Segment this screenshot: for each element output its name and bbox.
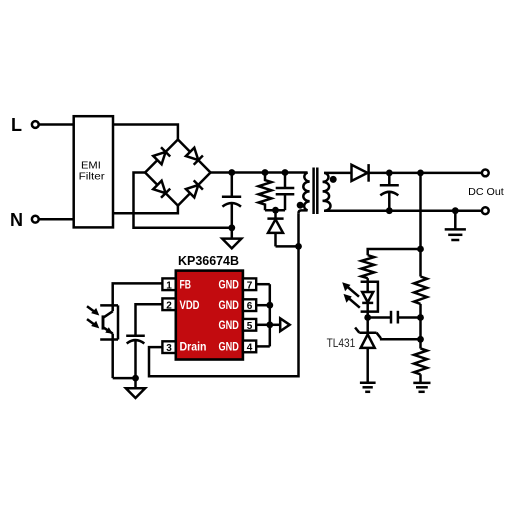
node gnd bus pin5: [266, 321, 273, 328]
resistor R4 LED series: [361, 255, 374, 278]
node feedback tap: [417, 170, 424, 177]
ground divider (IEC): [413, 383, 430, 392]
wire snubber bottom: [265, 209, 285, 212]
bridge diode D3 bottom-left: [153, 181, 170, 198]
node gnd bus pin6: [266, 302, 273, 309]
wire L to EMI filter: [39, 123, 74, 126]
wire R3 to ground: [419, 374, 422, 383]
node divider mid cap: [417, 314, 424, 321]
node snubber cap top: [282, 169, 289, 176]
wire pin 4 to gnd bus: [256, 345, 270, 348]
svg-text:3: 3: [166, 343, 172, 354]
terminal DC Out -: [482, 207, 489, 214]
node primary polarity dot: [297, 202, 304, 209]
node secondary ground junction: [452, 207, 459, 214]
svg-text:DC Out: DC Out: [468, 186, 504, 198]
capacitor C2 snubber: [276, 173, 295, 211]
node secondary polarity dot: [330, 176, 337, 183]
svg-text:L: L: [11, 115, 22, 135]
pin 4 box: [243, 341, 256, 354]
svg-text:1: 1: [166, 280, 172, 291]
wire pin 1 to optocoupler: [113, 283, 163, 311]
svg-text:N: N: [10, 210, 23, 230]
svg-text:VDD: VDD: [180, 300, 200, 312]
node opto gnd junction: [132, 375, 139, 382]
ground secondary (IEC): [445, 211, 466, 240]
node snubber resistor top: [262, 169, 269, 176]
LED light arrow 2: [344, 294, 360, 308]
svg-text:GND: GND: [219, 279, 239, 291]
resistor R3 divider lower: [414, 349, 427, 375]
node bulk cap bottom: [228, 224, 235, 231]
bridge diode D2 top-right: [186, 148, 203, 165]
capacitor C1 bulk: [222, 173, 241, 228]
pin 1 box: [162, 278, 175, 291]
svg-text:4: 4: [247, 343, 253, 354]
wire bridge right vertex to DC rail: [211, 171, 287, 174]
resistor R2 divider upper: [414, 277, 427, 304]
pin 2 box: [162, 298, 175, 311]
wire pin 5 to gnd bus: [256, 324, 270, 327]
ground TL431 (IEC): [360, 383, 376, 392]
pin 3 box: [162, 341, 175, 354]
wire drain net: [149, 213, 299, 376]
svg-text:EMI: EMI: [81, 161, 101, 172]
wire EMI to bridge bottom: [113, 206, 178, 214]
transformer T1 primary winding: [285, 173, 310, 214]
optocoupler transistor box: [100, 305, 118, 339]
shunt regulator U2 TL431: [355, 318, 381, 383]
wire EMI to bridge top: [113, 125, 178, 140]
node divider ref junction: [417, 336, 424, 343]
svg-text:KP36674B: KP36674B: [178, 254, 239, 268]
svg-text:5: 5: [247, 321, 253, 332]
svg-text:GND: GND: [219, 342, 239, 354]
svg-text:Filter: Filter: [79, 172, 106, 183]
opto light arrow 1: [87, 306, 99, 315]
IC U1 KP36674B body: [176, 254, 243, 360]
svg-text:GND: GND: [219, 300, 239, 312]
wire TL431 ref: [380, 338, 421, 341]
wire snubber diode to drain net: [276, 245, 299, 248]
wire N to EMI filter: [39, 218, 74, 221]
wire pin 6 to gnd bus: [256, 304, 270, 307]
terminal DC Out +: [482, 170, 489, 177]
wire bridge left vertex to return rail: [134, 173, 232, 228]
diode D6 output rectifier: [352, 164, 369, 182]
svg-text:7: 7: [247, 280, 253, 291]
svg-text:FB: FB: [180, 279, 192, 291]
capacitor C5 VDD: [126, 336, 145, 378]
bridge diode D1 top-left: [153, 147, 170, 164]
LED light arrow 1: [342, 282, 359, 296]
wire rectifier to DC Out +: [369, 172, 482, 175]
wire pin 7 to gnd bus: [256, 283, 270, 286]
svg-text:Drain: Drain: [180, 342, 207, 354]
ground IC (arrow right): [280, 318, 290, 331]
diode D5 snubber clamp: [267, 210, 283, 246]
capacitor C4 compensation: [368, 311, 421, 324]
svg-text:6: 6: [247, 301, 253, 312]
node bulk cap top: [228, 169, 235, 176]
pin 6 box: [243, 299, 256, 312]
wire gnd bus to arrow: [270, 324, 280, 327]
wire emitter to gnd rail: [113, 377, 136, 380]
transformer T1 secondary winding: [323, 173, 331, 211]
terminal L: [11, 115, 39, 135]
svg-text:GND: GND: [219, 320, 239, 332]
wire divider middle: [419, 304, 422, 349]
wire resistor to LED: [366, 278, 369, 292]
optocoupler LED box: [361, 282, 378, 312]
bridge diamond wires: [145, 140, 210, 206]
terminal N: [10, 210, 39, 230]
bridge diode D4 bottom-right: [186, 180, 203, 197]
wire pin 2 to VDD cap: [136, 304, 163, 336]
node output cap top: [386, 170, 393, 177]
wire secondary bottom to DC Out -: [324, 209, 482, 212]
EMI filter box: [74, 116, 113, 227]
node drain-snubber junction: [295, 243, 302, 250]
node LED TL431 junction: [364, 314, 371, 321]
phototransistor Q1: [103, 311, 113, 378]
capacitor C3 output: [380, 173, 399, 211]
opto light arrow 2: [87, 319, 99, 328]
wire gnd bus vertical: [269, 284, 272, 346]
svg-text:2: 2: [166, 300, 172, 311]
wire secondary top: [324, 172, 351, 175]
ground opto (triangle): [126, 378, 145, 398]
ground primary (triangle): [222, 228, 241, 249]
resistor R1 snubber: [259, 173, 272, 211]
wire feedback divider vertical: [419, 173, 422, 277]
wire branch to LED resistor: [368, 249, 421, 255]
pin 5 box: [243, 319, 256, 332]
LED D7 optocoupler emitter: [362, 292, 373, 318]
pin 7 box: [243, 278, 256, 291]
node divider branch: [417, 246, 424, 253]
node snubber diode top: [272, 207, 279, 214]
node output cap bottom: [386, 207, 393, 214]
svg-text:TL431: TL431: [327, 336, 356, 350]
transformer T1 core: [314, 168, 318, 215]
